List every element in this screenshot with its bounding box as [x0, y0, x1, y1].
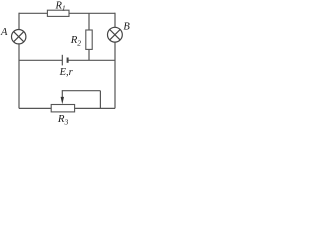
battery E,r long plate	[61, 55, 63, 66]
svg-text:B: B	[123, 21, 130, 32]
lamp B	[108, 27, 123, 42]
resistor R2	[86, 30, 92, 49]
wire top-left segment	[19, 12, 47, 14]
wire wiper right vertical	[99, 91, 101, 109]
wire middle left of battery	[19, 59, 62, 61]
rheostat R3 wiper arrowhead	[61, 97, 64, 104]
wire right vertical upper	[114, 13, 116, 28]
resistor R1	[47, 10, 69, 16]
wire wiper arrow shaft	[61, 90, 63, 99]
wire middle right of battery	[68, 59, 115, 61]
svg-text:R2: R2	[70, 34, 82, 47]
wire bottom right segment	[75, 107, 115, 109]
svg-text:R3: R3	[57, 113, 69, 126]
wire R2 stem top	[88, 13, 90, 30]
wire R2 stem bottom	[88, 49, 90, 60]
svg-text:E,r: E,r	[59, 67, 74, 78]
rheostat R3 box	[51, 105, 74, 112]
wire left vertical lower	[18, 44, 20, 109]
battery E,r short plate	[67, 58, 69, 63]
svg-text:A: A	[0, 27, 8, 38]
wire wiper horizontal	[62, 90, 100, 92]
wire bottom left segment	[19, 107, 51, 109]
svg-text:R1: R1	[55, 0, 66, 12]
lamp A	[12, 30, 26, 44]
wire top-right segment	[69, 12, 115, 14]
wire left vertical upper	[18, 13, 20, 30]
wire right vertical lower	[114, 42, 116, 108]
